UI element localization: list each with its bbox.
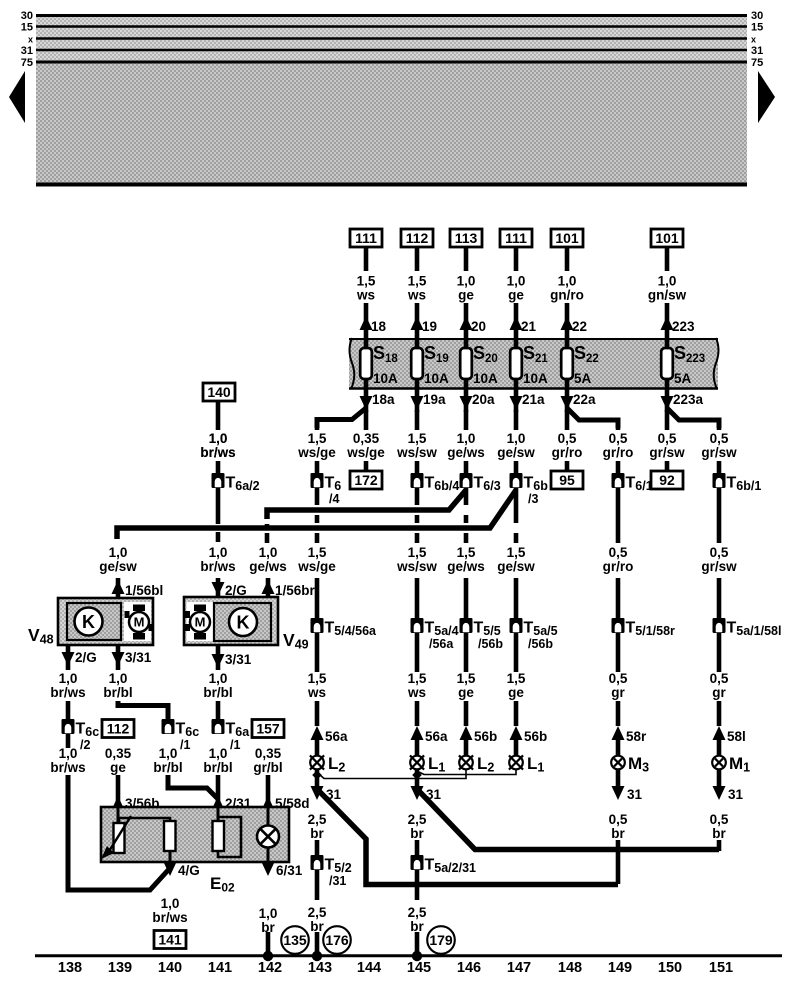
- svg-text:0,5: 0,5: [558, 431, 577, 446]
- svg-text:/31: /31: [329, 874, 346, 888]
- svg-text:1,0: 1,0: [109, 671, 128, 686]
- svg-text:gr/ro: gr/ro: [603, 445, 634, 460]
- svg-text:1,0: 1,0: [209, 431, 228, 446]
- svg-text:0,5: 0,5: [609, 545, 628, 560]
- svg-text:1,5: 1,5: [408, 671, 427, 686]
- svg-text:30: 30: [21, 10, 33, 22]
- svg-text:1,0: 1,0: [457, 431, 476, 446]
- svg-text:18: 18: [371, 319, 387, 334]
- svg-text:M: M: [195, 615, 206, 630]
- svg-text:157: 157: [256, 721, 280, 737]
- svg-text:br: br: [310, 919, 324, 934]
- svg-text:1,0: 1,0: [558, 274, 577, 289]
- svg-text:0,5: 0,5: [658, 431, 677, 446]
- svg-text:2,5: 2,5: [408, 905, 427, 920]
- svg-text:2,5: 2,5: [308, 905, 327, 920]
- svg-text:1,5: 1,5: [408, 274, 427, 289]
- svg-text:/1: /1: [180, 738, 190, 752]
- svg-text:/1: /1: [230, 738, 240, 752]
- svg-text:1,0: 1,0: [507, 274, 526, 289]
- svg-text:92: 92: [659, 472, 675, 488]
- svg-text:20: 20: [471, 319, 486, 334]
- svg-text:br/ws: br/ws: [50, 685, 85, 700]
- svg-text:ge: ge: [458, 288, 474, 303]
- svg-text:0,35: 0,35: [105, 746, 132, 761]
- svg-text:2,5: 2,5: [308, 812, 327, 827]
- svg-text:22: 22: [572, 319, 587, 334]
- svg-text:ws/sw: ws/sw: [396, 445, 437, 460]
- svg-text:31: 31: [751, 45, 763, 57]
- svg-text:ge/ws: ge/ws: [447, 559, 485, 574]
- svg-text:3/31: 3/31: [125, 650, 152, 665]
- svg-text:1,0: 1,0: [59, 746, 78, 761]
- svg-text:144: 144: [357, 960, 381, 976]
- svg-text:br/ws: br/ws: [200, 559, 235, 574]
- svg-text:21: 21: [521, 319, 537, 334]
- svg-text:1,5: 1,5: [408, 545, 427, 560]
- svg-text:br/ws: br/ws: [200, 445, 235, 460]
- svg-text:112: 112: [406, 230, 429, 246]
- svg-text:22a: 22a: [573, 392, 596, 407]
- svg-text:10A: 10A: [373, 371, 398, 386]
- svg-text:56b: 56b: [474, 729, 497, 744]
- svg-text:30: 30: [751, 10, 763, 22]
- svg-text:58r: 58r: [626, 729, 647, 744]
- svg-text:1/56br: 1/56br: [275, 583, 316, 598]
- svg-text:147: 147: [507, 960, 531, 976]
- svg-text:10A: 10A: [473, 371, 498, 386]
- svg-text:113: 113: [455, 230, 478, 246]
- svg-text:142: 142: [258, 960, 282, 976]
- svg-text:151: 151: [709, 960, 733, 976]
- svg-text:1,5: 1,5: [507, 671, 526, 686]
- svg-text:145: 145: [407, 960, 431, 976]
- svg-text:br/bl: br/bl: [153, 760, 182, 775]
- svg-text:56a: 56a: [425, 729, 448, 744]
- svg-text:gr/ro: gr/ro: [603, 559, 634, 574]
- svg-text:0,5: 0,5: [609, 671, 628, 686]
- svg-text:0,5: 0,5: [710, 545, 729, 560]
- svg-text:3/31: 3/31: [225, 652, 252, 667]
- svg-text:br/bl: br/bl: [203, 760, 232, 775]
- svg-text:br: br: [611, 826, 625, 841]
- svg-text:112: 112: [107, 721, 130, 737]
- svg-text:2/G: 2/G: [75, 650, 97, 665]
- svg-text:15: 15: [751, 22, 763, 34]
- svg-text:K: K: [237, 613, 250, 633]
- svg-text:140: 140: [207, 384, 231, 400]
- svg-text:111: 111: [355, 230, 377, 246]
- svg-text:10A: 10A: [523, 371, 548, 386]
- svg-text:135: 135: [283, 932, 307, 948]
- svg-text:223a: 223a: [673, 392, 704, 407]
- svg-text:0,5: 0,5: [710, 812, 729, 827]
- svg-text:101: 101: [555, 230, 579, 246]
- svg-text:95: 95: [559, 472, 575, 488]
- svg-text:ws/ge: ws/ge: [346, 445, 385, 460]
- svg-text:6/31: 6/31: [276, 863, 303, 878]
- svg-text:x: x: [751, 35, 756, 45]
- svg-text:179: 179: [429, 932, 453, 948]
- svg-text:ge/ws: ge/ws: [249, 559, 287, 574]
- svg-text:1,5: 1,5: [308, 431, 327, 446]
- svg-text:1,0: 1,0: [658, 274, 677, 289]
- svg-text:0,5: 0,5: [710, 671, 729, 686]
- svg-text:/2: /2: [80, 738, 90, 752]
- svg-text:br: br: [410, 919, 424, 934]
- svg-text:br/ws: br/ws: [50, 760, 85, 775]
- svg-text:140: 140: [158, 960, 182, 976]
- svg-text:1,0: 1,0: [159, 746, 178, 761]
- svg-text:gr/bl: gr/bl: [253, 760, 282, 775]
- svg-text:0,5: 0,5: [710, 431, 729, 446]
- svg-text:0,5: 0,5: [609, 431, 628, 446]
- svg-text:21a: 21a: [522, 392, 545, 407]
- svg-text:1,5: 1,5: [457, 545, 476, 560]
- svg-text:br/bl: br/bl: [203, 685, 232, 700]
- svg-text:br: br: [410, 826, 424, 841]
- svg-text:1,0: 1,0: [209, 671, 228, 686]
- svg-text:gr/sw: gr/sw: [701, 445, 737, 460]
- svg-text:ge/sw: ge/sw: [497, 445, 535, 460]
- svg-text:101: 101: [655, 230, 679, 246]
- svg-text:1,5: 1,5: [507, 545, 526, 560]
- svg-text:31: 31: [21, 45, 33, 57]
- svg-text:ws: ws: [356, 288, 375, 303]
- svg-text:br: br: [712, 826, 726, 841]
- svg-text:56a: 56a: [325, 729, 348, 744]
- svg-text:1,0: 1,0: [259, 545, 278, 560]
- svg-text:20a: 20a: [472, 392, 495, 407]
- svg-text:br/bl: br/bl: [103, 685, 132, 700]
- svg-text:gr/ro: gr/ro: [552, 445, 583, 460]
- svg-text:31: 31: [728, 787, 744, 802]
- svg-text:ge: ge: [458, 685, 474, 700]
- svg-text:br/ws: br/ws: [152, 910, 187, 925]
- svg-text:176: 176: [325, 932, 349, 948]
- svg-text:1,0: 1,0: [259, 906, 278, 921]
- svg-text:4/G: 4/G: [178, 863, 200, 878]
- svg-text:1,0: 1,0: [209, 746, 228, 761]
- svg-text:5A: 5A: [574, 371, 592, 386]
- svg-text:1,0: 1,0: [109, 545, 128, 560]
- svg-text:141: 141: [158, 932, 182, 948]
- svg-text:56b: 56b: [524, 729, 547, 744]
- svg-text:br: br: [310, 826, 324, 841]
- svg-text:10A: 10A: [424, 371, 449, 386]
- svg-text:58l: 58l: [727, 729, 746, 744]
- svg-text:0,35: 0,35: [255, 746, 282, 761]
- svg-text:/56b: /56b: [528, 637, 553, 651]
- svg-text:ws/sw: ws/sw: [396, 559, 437, 574]
- svg-text:1,0: 1,0: [457, 274, 476, 289]
- svg-text:ge/sw: ge/sw: [99, 559, 137, 574]
- svg-text:ge: ge: [508, 685, 524, 700]
- svg-text:1,5: 1,5: [457, 671, 476, 686]
- svg-text:ws/ge: ws/ge: [297, 445, 336, 460]
- svg-text:ge: ge: [508, 288, 524, 303]
- svg-text:ws: ws: [307, 685, 326, 700]
- svg-text:1,0: 1,0: [507, 431, 526, 446]
- svg-text:0,35: 0,35: [353, 431, 380, 446]
- svg-text:2,5: 2,5: [408, 812, 427, 827]
- svg-text:M: M: [134, 615, 145, 630]
- svg-text:1,5: 1,5: [357, 274, 376, 289]
- svg-text:1,0: 1,0: [59, 671, 78, 686]
- svg-text:18a: 18a: [372, 392, 395, 407]
- svg-text:146: 146: [457, 960, 481, 976]
- svg-text:19a: 19a: [423, 392, 446, 407]
- svg-text:/4: /4: [329, 492, 339, 506]
- svg-text:148: 148: [558, 960, 582, 976]
- svg-text:ge: ge: [110, 760, 126, 775]
- svg-text:0,5: 0,5: [609, 812, 628, 827]
- svg-text:19: 19: [422, 319, 437, 334]
- svg-text:150: 150: [658, 960, 682, 976]
- svg-text:/56b: /56b: [478, 637, 503, 651]
- svg-text:ge/sw: ge/sw: [497, 559, 535, 574]
- svg-text:gr/sw: gr/sw: [701, 559, 737, 574]
- svg-text:ws: ws: [407, 288, 426, 303]
- svg-text:75: 75: [751, 57, 763, 69]
- svg-text:gr/sw: gr/sw: [649, 445, 685, 460]
- svg-text:ge/ws: ge/ws: [447, 445, 485, 460]
- svg-text:gr: gr: [611, 685, 625, 700]
- svg-text:75: 75: [21, 57, 33, 69]
- svg-text:gn/sw: gn/sw: [648, 288, 687, 303]
- svg-text:x: x: [28, 35, 33, 45]
- svg-text:111: 111: [505, 230, 527, 246]
- svg-text:143: 143: [308, 960, 332, 976]
- svg-text:141: 141: [208, 960, 232, 976]
- svg-text:1,5: 1,5: [308, 671, 327, 686]
- svg-text:223: 223: [672, 319, 695, 334]
- svg-text:31: 31: [627, 787, 643, 802]
- svg-text:ws/ge: ws/ge: [297, 559, 336, 574]
- svg-text:1,5: 1,5: [408, 431, 427, 446]
- svg-text:1,5: 1,5: [308, 545, 327, 560]
- svg-text:1,0: 1,0: [209, 545, 228, 560]
- svg-text:2/G: 2/G: [225, 583, 247, 598]
- svg-text:1/56bl: 1/56bl: [125, 583, 163, 598]
- svg-text:1,0: 1,0: [161, 896, 180, 911]
- svg-text:5A: 5A: [674, 371, 692, 386]
- svg-text:138: 138: [58, 960, 82, 976]
- svg-text:/56a: /56a: [429, 637, 454, 651]
- svg-text:gn/ro: gn/ro: [550, 288, 584, 303]
- svg-text:172: 172: [354, 472, 378, 488]
- svg-text:/3: /3: [528, 492, 538, 506]
- svg-text:ws: ws: [407, 685, 426, 700]
- svg-text:139: 139: [108, 960, 132, 976]
- svg-text:K: K: [82, 612, 95, 632]
- svg-text:15: 15: [21, 22, 33, 34]
- svg-text:gr: gr: [712, 685, 726, 700]
- svg-text:149: 149: [608, 960, 632, 976]
